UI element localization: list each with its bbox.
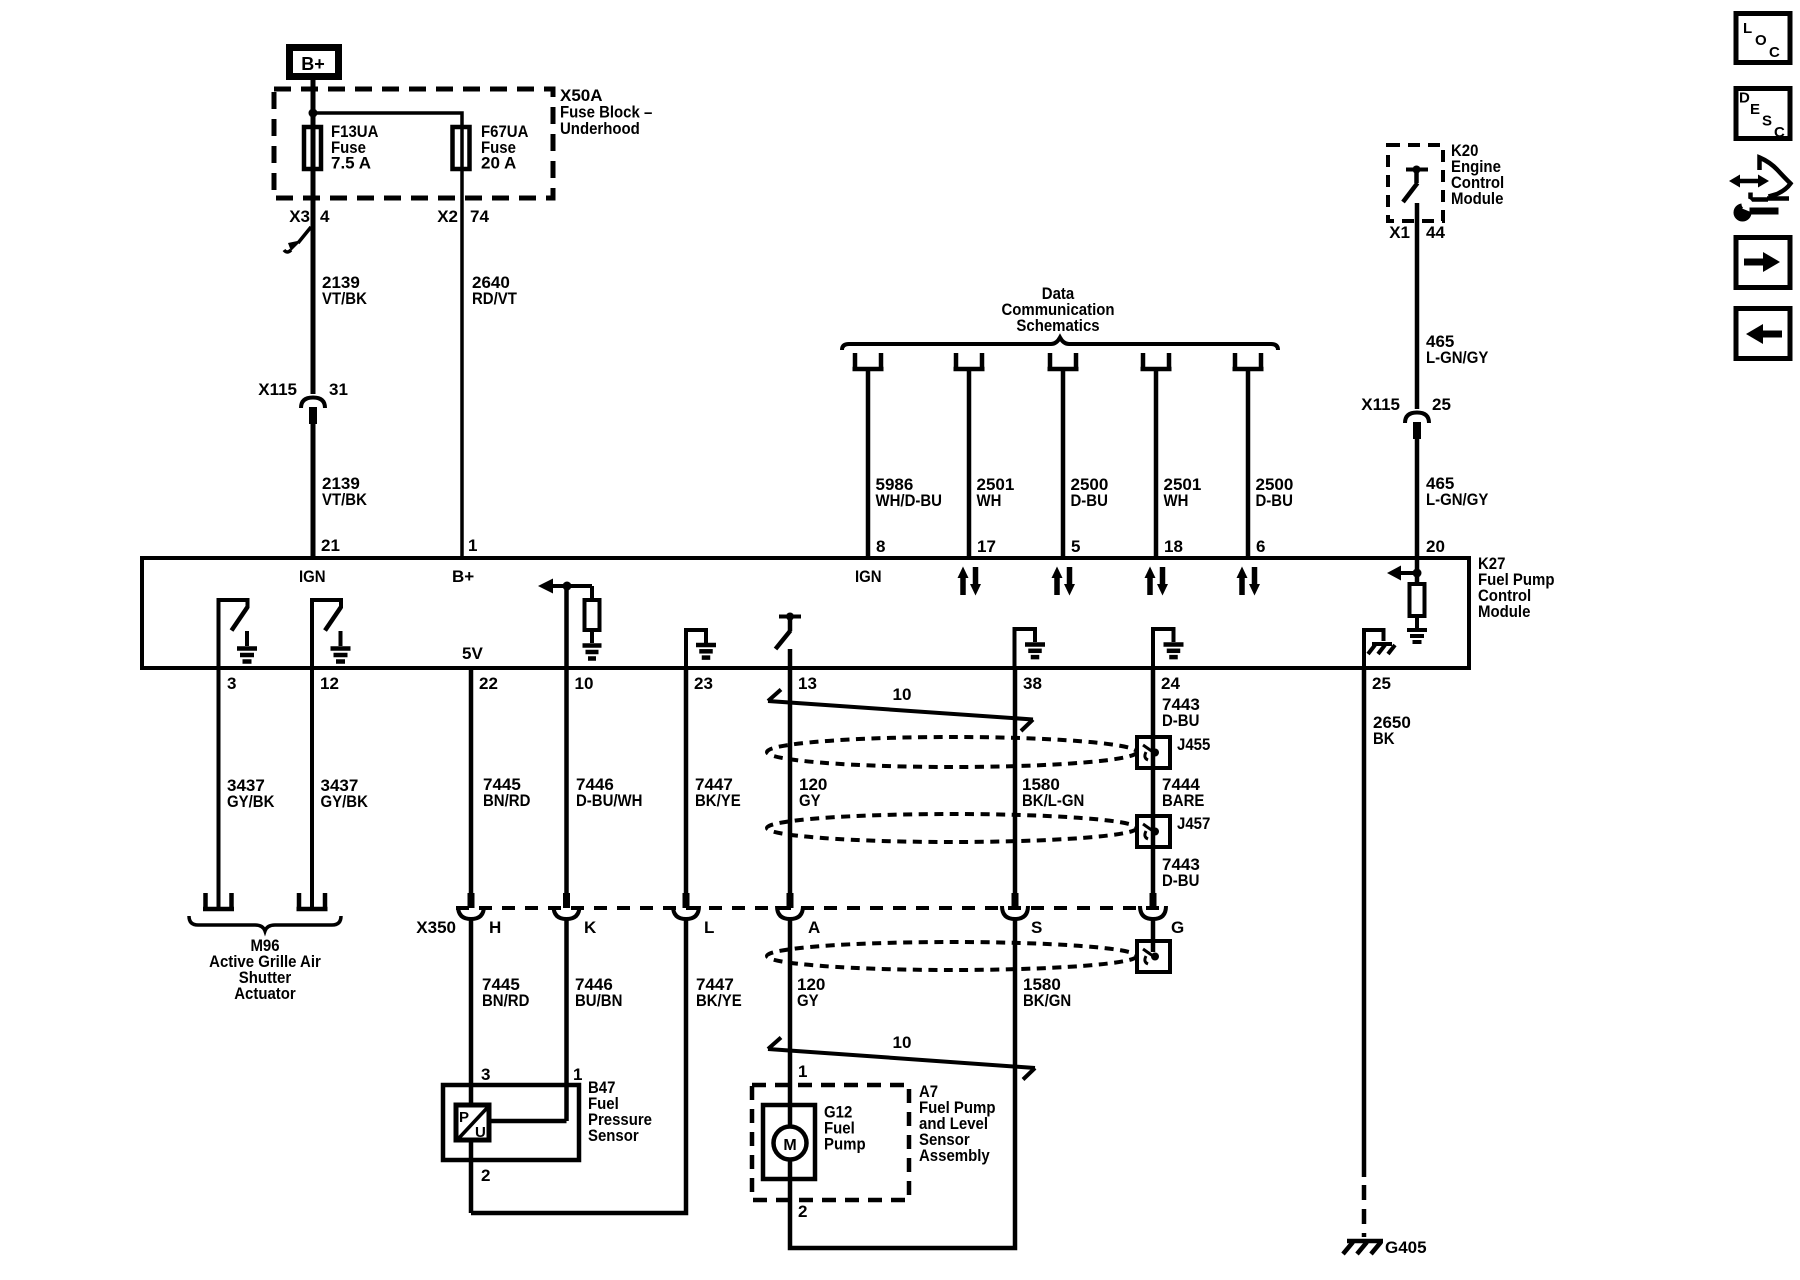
wire 120 GY X350 A to G12 pin 1 [788,919,793,1128]
fuse F67UA value label [481,122,528,173]
wire 2139 from X115 to module pin 21 [311,423,316,556]
wire 2650 BK from pin 25 [1362,668,1367,1177]
wire label 2501 WH [977,475,1015,510]
terminal cup (to data bus) at wire 2500 [1048,353,1079,369]
wire label 120 GY (lower) [797,975,825,1010]
svg-text:X350: X350 [416,918,456,937]
svg-text:D-BU/WH: D-BU/WH [576,791,643,810]
svg-text:Pump: Pump [824,1135,866,1154]
B47 internal link wire [490,1119,567,1124]
wire label 2650 BK [1373,713,1411,748]
wire label 3437 GY/BK [321,776,369,811]
connector X3 breakout hook arrow [284,227,311,252]
svg-text:X1: X1 [1389,223,1410,242]
fuse F13UA [304,127,321,169]
svg-text:7.5 A: 7.5 A [331,154,371,173]
svg-text:BK/L-GN: BK/L-GN [1022,791,1084,810]
wire label 5986 WH/D-BU [876,475,943,510]
module K27 Fuel Pump Control Module box [142,558,1469,668]
svg-text:BK/YE: BK/YE [695,791,741,810]
svg-text:BARE: BARE [1162,791,1204,810]
svg-text:5: 5 [1071,537,1080,556]
connector X350 terminal G [1140,893,1184,937]
svg-text:B+: B+ [452,567,474,586]
wire 7443 D-BU X350 G to shield splice [1151,919,1156,952]
svg-text:WH: WH [1164,491,1189,510]
svg-text:L: L [1743,20,1752,37]
connector X350 terminal K [554,893,598,937]
bidirectional data arrows below pin 1248 [1237,567,1261,596]
svg-text:WH/D-BU: WH/D-BU [876,491,943,510]
svg-text:GY/BK: GY/BK [321,792,369,811]
sidebar icon vehicle with arrow and wrench [1729,158,1791,222]
internal ground symbol above pin 12 [331,631,351,662]
bidirectional data arrows below pin 1063 [1052,567,1076,596]
svg-text:BK/YE: BK/YE [696,991,742,1010]
internal switch to ground above pin 3 [217,598,248,668]
splice J455 [1137,735,1210,768]
bidirectional data arrows below pin 1156 [1145,567,1169,596]
svg-text:WH: WH [977,491,1002,510]
fuse F67UA [453,127,470,169]
wire label 2500 D-BU [1071,475,1109,510]
terminal cup (to data bus) at wire 2500 [1233,353,1264,369]
svg-text:VT/BK: VT/BK [322,289,368,308]
svg-text:H: H [489,918,501,937]
svg-text:10: 10 [893,685,912,704]
wire label 2139 VT/BK (upper) [322,273,368,308]
inline connector X115 pin 25 [1361,395,1451,439]
svg-text:U: U [475,1124,486,1141]
wire 7446 BU/BN X350 K to B47 pin 1 [564,919,569,1121]
svg-text:BN/RD: BN/RD [483,791,530,810]
B47 P/U sensor element [456,1105,489,1141]
wire label 3437 GY/BK [227,776,275,811]
internal ground above pin 38 [1013,627,1046,668]
svg-text:20 A: 20 A [481,154,516,173]
wire label 7444 BARE [1162,775,1204,810]
svg-text:44: 44 [1426,223,1445,242]
svg-text:VT/BK: VT/BK [322,490,368,509]
connector X350 terminal A [777,893,820,937]
terminal cup (to data bus) at wire 2501 [1141,353,1172,369]
svg-text:IGN: IGN [299,567,326,586]
wire label 7443 D-BU (below J457) [1162,855,1200,890]
sidebar icon DESC [1736,89,1790,142]
wire 3437 GY/BK from pin 3 to M96 [217,668,221,907]
wire label 465 L-GN/GY (upper) [1426,332,1489,367]
svg-text:B+: B+ [301,54,325,74]
svg-text:X3: X3 [289,207,310,226]
wire B+ feed down to X115 (circuit 2139) [311,80,316,394]
node: junction in fuse block [309,109,318,118]
wire 7443 D-BU from pin 24 to J455 [1151,668,1156,893]
svg-text:M: M [783,1137,796,1154]
wire label 7446 D-BU/WH [576,775,643,810]
svg-text:IGN: IGN [855,567,882,586]
wire 2501 WH to module pin 18 [1154,369,1159,556]
G12 motor symbol [774,1127,807,1160]
svg-text:21: 21 [321,536,340,555]
connector X1 pin 44 labels [1389,223,1445,242]
internal resistor at pin 20 [1410,584,1425,616]
G12 fuel pump outer box [763,1105,815,1179]
ground G405 chassis symbol [1343,1238,1427,1257]
option divider arrow 10 (upper) [768,685,1033,731]
M96 terminal cup at pin 12 wire [297,893,328,909]
svg-text:23: 23 [694,674,713,693]
ECM K20 internal driver switch [1403,166,1428,203]
fuse F13UA value label [331,122,378,173]
svg-text:RD/VT: RD/VT [472,289,517,308]
M96 terminal cup at pin 3 wire [203,893,234,909]
svg-text:4: 4 [320,207,330,226]
svg-text:BU/BN: BU/BN [575,991,622,1010]
wire 7445 BN/RD from pin 22 to X350 H [469,668,474,893]
internal sense line with left arrow at pin 10 [538,579,592,669]
svg-text:18: 18 [1164,537,1183,556]
svg-text:2: 2 [481,1166,490,1185]
wire 120 GY from pin 13 to X350 A [788,668,793,893]
wire 3437 GY/BK from pin 12 to M96 [310,668,314,907]
svg-text:X2: X2 [437,207,458,226]
twisted pair ellipse (pair to J455) [767,737,1137,767]
sidebar icon back arrow [1736,309,1790,359]
wire 7447 BK/YE X350 L to B47 pin 2 return [471,919,686,1213]
svg-text:Sensor: Sensor [588,1126,639,1145]
terminal cup (to data bus) at wire 2501 [954,353,985,369]
wire 1580 BK/GN X350 S to G12 pin 2 return [790,919,1015,1248]
svg-text:L-GN/GY: L-GN/GY [1426,348,1489,367]
connector X2 pin 74 labels [437,207,489,226]
svg-text:GY: GY [797,991,819,1010]
wire label 1580 BK/L-GN [1022,775,1084,810]
sidebar icon next arrow [1736,238,1790,288]
svg-text:A: A [808,918,820,937]
twisted pair ellipse (lower, to shield splice) [767,942,1137,970]
wire 7445 BN/RD X350 H to B47 pin 3 [469,919,474,1108]
wire label 1580 BK/GN [1023,975,1071,1010]
A7 label [919,1082,996,1165]
fuse block X50A label [560,86,652,138]
svg-text:O: O [1755,32,1767,49]
svg-text:8: 8 [876,537,885,556]
ECM K20 dashed box [1388,145,1443,221]
svg-text:G: G [1171,918,1184,937]
svg-text:X115: X115 [1361,395,1400,414]
module bottom pin number labels [227,674,1391,693]
inline connector X115 pin 31 [258,380,348,424]
wire 2500 D-BU to module pin 6 [1246,369,1251,556]
internal resistor at pin 10 [585,600,600,630]
svg-text:1: 1 [798,1062,807,1081]
internal chassis ground above pin 25 [1362,628,1395,668]
wire label 120 GY (upper) [799,775,827,810]
svg-text:24: 24 [1161,674,1180,693]
svg-text:J455: J455 [1177,735,1210,754]
svg-text:3: 3 [481,1065,490,1084]
connector X350 terminal S [1002,893,1042,937]
wire label 2139 VT/BK (lower) [322,474,368,509]
internal ground above pin 24 [1151,627,1184,668]
wire 7447 BK/YE from pin 23 to X350 L [684,668,689,893]
wire label 7447 BK/YE (upper) [695,775,741,810]
splice J457 [1137,814,1210,847]
svg-text:E: E [1750,101,1760,118]
ground G405 dashed lead [1362,1185,1367,1237]
svg-text:22: 22 [479,674,498,693]
terminal cup (to data bus) at wire 5986 [853,353,884,369]
data communication schematics brace [842,338,1278,351]
svg-text:K: K [584,918,597,937]
svg-text:20: 20 [1426,537,1445,556]
svg-text:1: 1 [573,1065,582,1084]
svg-text:X115: X115 [258,380,297,399]
svg-text:GY/BK: GY/BK [227,792,275,811]
internal ground below pin-20 resistor [1407,616,1427,642]
B47 pin 2 wire [469,1140,474,1213]
svg-text:D: D [1739,90,1750,107]
internal driver switch above pin 13 [776,613,802,669]
wire 5986 WH/D-BU to module pin 8 [866,369,871,556]
svg-text:S: S [1031,918,1042,937]
svg-text:10: 10 [575,674,594,693]
svg-text:P: P [459,1109,469,1126]
internal ground below pin-10 resistor [583,630,602,659]
svg-text:12: 12 [320,674,339,693]
data communication schematics title [1002,284,1115,335]
svg-text:D-BU: D-BU [1162,871,1199,890]
wire 465 from X115 to module pin 20 [1415,438,1420,556]
svg-text:BK: BK [1373,729,1395,748]
wire branch to fuse F67UA [313,113,462,556]
B47 label [588,1078,652,1145]
internal ground above pin 23 [684,628,716,668]
svg-text:74: 74 [470,207,489,226]
svg-text:25: 25 [1432,395,1451,414]
svg-text:Schematics: Schematics [1016,316,1099,335]
B47 Fuel Pressure Sensor box [443,1085,579,1160]
svg-text:L-GN/GY: L-GN/GY [1426,490,1489,509]
svg-text:Underhood: Underhood [560,119,640,138]
wire 2501 WH to module pin 17 [967,369,972,556]
power symbol B+ [290,48,339,77]
internal junction + left arrow at pin 20 [1387,556,1422,584]
svg-text:S: S [1762,113,1772,130]
svg-text:3: 3 [227,674,236,693]
wire label 2640 RD/VT [472,273,517,308]
svg-text:G405: G405 [1385,1238,1427,1257]
connector X350 terminal L [673,893,714,937]
fuse block X50A dashed outline [274,89,553,198]
A7 Fuel Pump and Level Sensor Assembly dashed box [752,1085,909,1200]
svg-text:D-BU: D-BU [1162,711,1199,730]
svg-text:C: C [1774,124,1785,141]
wire 1580 BK/L-GN from pin 38 to X350 S [1013,668,1018,893]
svg-text:17: 17 [977,537,996,556]
wire label 7446 BU/BN [575,975,622,1010]
shield splice (unnamed) [1137,941,1170,972]
ECM K20 label [1451,141,1504,208]
svg-text:Actuator: Actuator [234,984,296,1003]
wire label 465 L-GN/GY (lower) [1426,474,1489,509]
svg-text:25: 25 [1372,674,1391,693]
svg-text:1: 1 [468,536,477,555]
internal ground symbol above pin 3 [237,631,257,662]
wire 7446 D-BU/WH from pin 10 to X350 K [564,668,569,893]
svg-text:GY: GY [799,791,821,810]
internal switch to ground above pin 12 [310,598,341,668]
wire label 2500 D-BU [1256,475,1294,510]
option divider arrow 10 (lower) [768,1033,1035,1080]
module K27 label [1478,554,1555,621]
svg-text:D-BU: D-BU [1071,491,1108,510]
svg-text:38: 38 [1023,674,1042,693]
svg-text:C: C [1769,44,1780,61]
svg-text:Assembly: Assembly [919,1146,990,1165]
wire label 2501 WH [1164,475,1202,510]
svg-text:Module: Module [1451,189,1503,208]
wire label 7445 BN/RD (upper) [483,775,530,810]
M96 brace [189,916,341,931]
connector X350 terminal H [458,893,501,937]
wire from K20 switch to X1 pin 44 [1415,203,1420,409]
svg-text:10: 10 [893,1033,912,1052]
twisted pair ellipse (pair to J457) [767,814,1137,842]
svg-text:J457: J457 [1177,814,1210,833]
wire 2500 D-BU to module pin 5 [1061,369,1066,556]
svg-text:D-BU: D-BU [1256,491,1293,510]
svg-text:BK/GN: BK/GN [1023,991,1071,1010]
G12 label [824,1103,866,1154]
M96 Active Grille Air Shutter Actuator label [209,936,321,1003]
svg-text:2: 2 [798,1202,807,1221]
X350 gang dashed line [456,906,1160,910]
bidirectional data arrows below pin 969 [958,567,982,596]
svg-text:6: 6 [1256,537,1265,556]
svg-text:13: 13 [798,674,817,693]
connector X3 pin 4 labels [289,207,330,226]
sidebar icon LOC [1736,14,1790,63]
svg-text:31: 31 [329,380,348,399]
wire label 7447 BK/YE (lower) [696,975,742,1010]
wire label 7443 D-BU (upper) [1162,695,1200,730]
svg-text:L: L [704,918,714,937]
svg-text:Module: Module [1478,602,1530,621]
wire label 7445 BN/RD (lower) [482,975,529,1010]
svg-text:5V: 5V [462,644,483,663]
svg-text:BN/RD: BN/RD [482,991,529,1010]
